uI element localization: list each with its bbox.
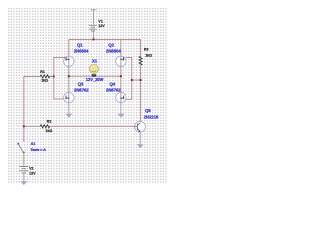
svg-text:2N6804: 2N6804 (74, 48, 89, 53)
svg-text:V2: V2 (29, 166, 33, 170)
svg-text:Q5: Q5 (145, 108, 151, 113)
svg-text:R1: R1 (40, 70, 45, 74)
svg-text:1kΩ: 1kΩ (45, 129, 52, 133)
svg-text:1kΩ: 1kΩ (41, 79, 48, 83)
svg-text:R3: R3 (144, 48, 149, 52)
svg-text:Taste = A: Taste = A (30, 148, 46, 152)
svg-text:Q1: Q1 (77, 42, 83, 47)
svg-text:X1: X1 (92, 58, 98, 63)
svg-text:R2: R2 (47, 119, 52, 123)
svg-text:Q2: Q2 (108, 42, 114, 47)
svg-text:2N6762: 2N6762 (106, 87, 121, 92)
svg-text:2N6804: 2N6804 (106, 48, 121, 53)
svg-text:12V_20W: 12V_20W (86, 77, 104, 82)
svg-text:1kΩ: 1kΩ (145, 53, 152, 57)
svg-text:2N2218: 2N2218 (144, 114, 159, 119)
svg-text:Q4: Q4 (109, 81, 115, 86)
svg-text:Q3: Q3 (78, 81, 84, 86)
svg-text:S1: S1 (31, 142, 35, 146)
svg-text:2N6762: 2N6762 (74, 87, 89, 92)
svg-text:V1: V1 (98, 19, 102, 23)
svg-text:12V: 12V (29, 171, 36, 175)
svg-text:12V: 12V (98, 24, 105, 28)
